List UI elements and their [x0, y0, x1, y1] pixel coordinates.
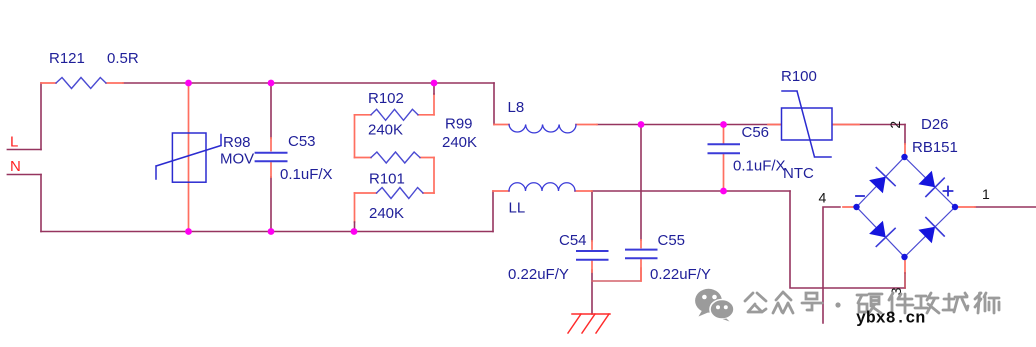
svg-text:R98: R98: [223, 134, 251, 151]
svg-text:LL: LL: [509, 200, 526, 217]
svg-text:R121: R121: [49, 50, 85, 67]
svg-text:N: N: [10, 158, 21, 175]
char gong2: [915, 293, 939, 313]
junction R98 bottom rail: [185, 228, 192, 235]
capacitor C55 plates: [626, 250, 657, 259]
svg-text:0.1uF/X: 0.1uF/X: [280, 166, 333, 183]
wire L riser to top rail: [40, 83, 42, 150]
inductor L8: [509, 125, 576, 133]
svg-text:ybx8.cn: ybx8.cn: [856, 309, 925, 328]
diode D26-d (AC bottom to plus): [918, 218, 944, 244]
svg-text:0.22uF/Y: 0.22uF/Y: [650, 266, 711, 283]
diode D26-c (minus to AC bottom): [869, 221, 895, 247]
junction C55 on L8 line: [638, 121, 645, 128]
diode D26-b (AC top to plus): [918, 171, 944, 197]
svg-text:4: 4: [819, 190, 827, 206]
thermistor R100 body: [782, 91, 833, 157]
wire Y-cap bottom join: [592, 268, 641, 281]
minus sign: [856, 195, 864, 197]
capacitor C55 pin stubs: [640, 240, 642, 281]
capacitor C56 plates: [709, 144, 740, 153]
wire bridge pin1 positive output: [975, 206, 1036, 208]
wire top rail: [123, 82, 494, 84]
bridge rectifier D26 frame: [857, 157, 956, 257]
watermark wechat icon: [695, 289, 734, 322]
capacitor C54 pin stubs: [591, 241, 593, 272]
svg-text:NTC: NTC: [783, 165, 814, 182]
svg-text:C54: C54: [559, 232, 587, 249]
svg-text:2: 2: [887, 121, 903, 129]
junction C53 bottom rail: [268, 228, 275, 235]
svg-text:240K: 240K: [368, 122, 403, 139]
svg-text:R101: R101: [369, 171, 405, 188]
svg-text:240K: 240K: [369, 205, 404, 222]
wire ground stem: [591, 270, 593, 314]
node N port stub: [7, 174, 41, 176]
resistor R102 leads: [355, 114, 435, 116]
junction R98 top rail: [185, 80, 192, 87]
resistor R99: [371, 152, 420, 163]
bridge rectifier D26 pin leads: [843, 144, 975, 273]
char cheng: [943, 293, 968, 312]
junction C56 on L8 line: [720, 121, 727, 128]
wire C54 branch vertical: [591, 191, 593, 241]
inductor L8 leads: [494, 124, 597, 126]
svg-text:RB151: RB151: [912, 139, 958, 156]
thermistor R100 leads: [768, 124, 859, 126]
svg-text:R99: R99: [445, 116, 473, 133]
svg-text:0.5R: 0.5R: [107, 50, 139, 67]
resistor R121 leads: [41, 82, 123, 84]
junction C53 top rail: [268, 80, 275, 87]
plus sign: [944, 187, 953, 196]
wire bridge pin4 negative output: [823, 207, 840, 323]
varistor R98 body: [156, 133, 221, 182]
inductor LL: [509, 183, 575, 191]
char ying: [857, 294, 882, 313]
resistor R101: [377, 188, 424, 199]
resistor R101 leads: [355, 192, 435, 194]
wire drop to L8: [493, 83, 495, 125]
wire LL output line: [592, 190, 790, 192]
svg-text:C55: C55: [658, 232, 686, 249]
resistor R99 leads: [355, 157, 435, 159]
svg-text:240K: 240K: [442, 134, 477, 151]
capacitor C56 pin wires: [723, 125, 725, 192]
wire C55 branch vertical: [640, 125, 642, 241]
svg-text:0.22uF/Y: 0.22uF/Y: [508, 266, 569, 283]
wire R102 chain verticals: [355, 94, 435, 222]
bridge corner pins: [853, 154, 958, 260]
char zhong: [773, 292, 793, 313]
char hao: [802, 293, 822, 310]
junction dots: [185, 80, 727, 235]
junction R102 top rail: [431, 80, 438, 87]
svg-text:MOV: MOV: [220, 151, 254, 168]
varistor R98 pin line: [188, 83, 190, 232]
resistor R102: [371, 109, 418, 120]
wire N drop to bottom rail: [40, 175, 42, 232]
capacitor C53 pin wires: [270, 83, 272, 232]
junction R101 bottom rail: [351, 228, 358, 235]
resistor R121: [56, 78, 106, 89]
capacitor C54 plates: [577, 251, 608, 260]
watermark text strokes: [745, 292, 999, 313]
wire L8 output line: [597, 124, 905, 126]
node L port stub: [7, 149, 41, 151]
inductor LL leads: [493, 190, 592, 192]
char gong: [745, 293, 766, 312]
svg-text:L8: L8: [508, 99, 525, 116]
char jian: [889, 293, 913, 313]
wire riser to LL: [492, 191, 494, 232]
separator dot: [835, 302, 840, 307]
wire LL line to bridge pin3 routing: [790, 191, 905, 288]
wire bridge pin2 drop: [904, 125, 906, 145]
svg-text:R100: R100: [781, 68, 817, 85]
svg-text:1: 1: [982, 186, 990, 202]
svg-text:C56: C56: [742, 124, 770, 141]
svg-text:D26: D26: [921, 116, 949, 133]
ground: [568, 314, 610, 333]
svg-text:0.1uF/X: 0.1uF/X: [733, 158, 786, 175]
capacitor C53 plates: [256, 153, 287, 162]
svg-text:R102: R102: [368, 90, 404, 107]
svg-text:C53: C53: [288, 133, 316, 150]
wire bottom rail: [41, 231, 493, 233]
svg-text:L: L: [10, 133, 18, 150]
diode D26-a (minus to AC top): [869, 168, 895, 194]
char shi: [975, 293, 999, 313]
junction C56 on LL line: [720, 188, 727, 195]
